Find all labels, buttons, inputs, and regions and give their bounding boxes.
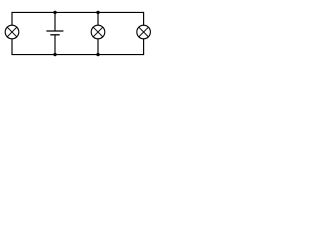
junction: lamp L3 / bottom rail [96, 53, 99, 56]
junction: battery / bottom rail [53, 53, 56, 56]
wire: battery top lead [54, 12, 56, 31]
wire: lamp L1 bottom lead + bottom rail + lamp L4 bottom lead [12, 39, 144, 55]
wire: battery bottom lead [54, 35, 56, 55]
battery B1 (cell: long positive plate, short negative plate) [46, 31, 63, 35]
junction: lamp L3 / top rail [96, 11, 99, 14]
junction: battery / top rail [53, 11, 56, 14]
lamp L4 [137, 25, 151, 39]
wire: lamp L3 top lead [97, 12, 99, 25]
wire: lamp L3 bottom lead [97, 39, 99, 55]
lamp L3 [91, 25, 105, 39]
lamp L1 [5, 25, 19, 39]
wire: lamp L1 top lead + top rail + lamp L4 top lead [12, 12, 144, 25]
